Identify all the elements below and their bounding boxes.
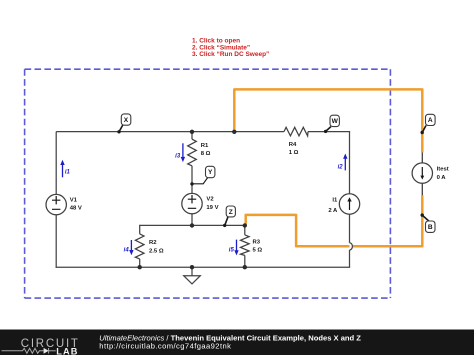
svg-text:R4: R4 bbox=[289, 142, 297, 148]
label V1 bbox=[70, 198, 82, 212]
wire R1 to V2 (Y net) bbox=[191, 166, 193, 194]
label R4 bbox=[289, 142, 299, 156]
wire R1 top stub bbox=[191, 132, 193, 139]
wire top horizontal X net bbox=[56, 131, 284, 133]
svg-text:V2: V2 bbox=[206, 197, 214, 203]
label V2 bbox=[206, 197, 218, 211]
wire bottom horizontal ground net bbox=[56, 266, 351, 268]
wire I1 bottom with hop over orange bbox=[349, 214, 351, 267]
voltage source V1 bbox=[46, 194, 66, 214]
svg-text:48 V: 48 V bbox=[70, 206, 82, 212]
voltage source V2 bbox=[182, 193, 202, 213]
wire middle horizontal Z net bbox=[140, 224, 245, 226]
node X bbox=[117, 114, 131, 134]
junction R2 bottom bbox=[138, 265, 142, 269]
svg-text:A: A bbox=[428, 117, 433, 124]
junction R3 bottom bbox=[243, 265, 247, 269]
junction ground bbox=[190, 265, 194, 269]
resistor R2 bbox=[135, 234, 144, 259]
svg-text:Itest: Itest bbox=[437, 167, 449, 173]
current arrow i1 bbox=[60, 160, 70, 178]
junction R1 top bbox=[190, 130, 194, 134]
resistor R1 bbox=[188, 139, 197, 166]
wire orange bottom: Itest bottom B to node Z net bbox=[246, 195, 423, 246]
current source Itest bbox=[412, 163, 432, 183]
current arrow i5 bbox=[229, 240, 239, 256]
label I1 bbox=[328, 198, 338, 214]
wire R2 bottom stub bbox=[139, 259, 141, 267]
wire R3 bottom stub bbox=[244, 255, 246, 267]
svg-text:Z: Z bbox=[229, 209, 233, 216]
node B bbox=[421, 213, 436, 232]
svg-text:I1: I1 bbox=[332, 198, 338, 204]
footer bar bbox=[0, 330, 474, 355]
svg-text:0 A: 0 A bbox=[437, 175, 447, 181]
svg-text:R2: R2 bbox=[149, 240, 157, 246]
svg-text:2 A: 2 A bbox=[328, 208, 338, 214]
svg-text:5 Ω: 5 Ω bbox=[253, 248, 263, 254]
resistor R4 bbox=[284, 127, 308, 136]
junction orange/top wire bbox=[232, 130, 236, 134]
wire orange top: node X net to A (Itest top) bbox=[234, 89, 422, 152]
resistor R3 bbox=[241, 235, 250, 256]
svg-text:Y: Y bbox=[208, 169, 213, 176]
svg-text:W: W bbox=[332, 118, 339, 125]
selection dashed rectangle bbox=[25, 69, 391, 298]
ground bbox=[184, 267, 201, 284]
label Itest bbox=[437, 167, 449, 181]
footer logo resistor-diode line bbox=[2, 348, 56, 354]
wire top right W segment bbox=[308, 131, 350, 133]
svg-text:i2: i2 bbox=[338, 165, 344, 171]
svg-text:i5: i5 bbox=[229, 248, 235, 254]
node Y bbox=[190, 166, 215, 185]
wire R3 top stub bbox=[244, 225, 246, 235]
node A bbox=[421, 114, 436, 134]
current arrow i2 bbox=[338, 154, 348, 171]
svg-text:i1: i1 bbox=[65, 170, 71, 176]
svg-text:R3: R3 bbox=[253, 240, 261, 246]
current arrow i3 bbox=[175, 143, 185, 162]
current arrow i4 bbox=[124, 240, 134, 255]
junction V2 bottom bbox=[190, 223, 194, 227]
svg-text:1 Ω: 1 Ω bbox=[289, 150, 299, 156]
svg-text:B: B bbox=[428, 224, 433, 231]
wire Itest terminal stubs bbox=[421, 152, 423, 195]
svg-text:V1: V1 bbox=[70, 198, 78, 204]
svg-text:X: X bbox=[124, 117, 129, 124]
svg-text:LAB: LAB bbox=[56, 346, 78, 355]
label R2 bbox=[149, 240, 164, 254]
wire W vertical to I1 bbox=[349, 132, 351, 194]
svg-text:i3: i3 bbox=[175, 154, 181, 160]
instruction text red bbox=[192, 38, 269, 58]
junction R3 top / orange bbox=[243, 223, 247, 227]
label R1 bbox=[201, 143, 211, 157]
wire R2 top corner from Z net bbox=[139, 225, 141, 234]
svg-text:8 Ω: 8 Ω bbox=[201, 151, 211, 157]
label R3 bbox=[253, 240, 263, 254]
node Z bbox=[223, 206, 235, 227]
current source I1 bbox=[339, 194, 359, 214]
wire V2 bottom stub bbox=[191, 214, 193, 225]
svg-text:3. Click “Run DC Sweep”: 3. Click “Run DC Sweep” bbox=[192, 51, 269, 58]
svg-text:2.5 Ω: 2.5 Ω bbox=[149, 248, 164, 254]
wire left vertical V1 bottom bbox=[55, 215, 57, 268]
node W bbox=[324, 115, 340, 133]
wire left vertical V1 top bbox=[55, 132, 57, 195]
svg-text:19 V: 19 V bbox=[206, 205, 218, 211]
svg-text:http://circuitlab.com/cg74fgaa: http://circuitlab.com/cg74fgaa92tnk bbox=[99, 341, 231, 350]
svg-text:R1: R1 bbox=[201, 143, 209, 149]
svg-text:i4: i4 bbox=[124, 248, 130, 254]
